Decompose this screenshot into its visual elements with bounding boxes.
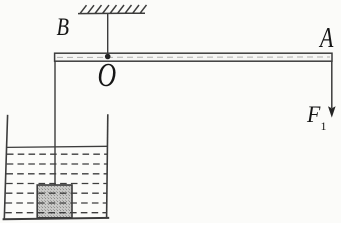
svg-text:A: A: [318, 24, 334, 54]
svg-text:F: F: [306, 101, 321, 127]
svg-text:B: B: [57, 13, 70, 40]
svg-text:O: O: [98, 56, 117, 94]
svg-text:1: 1: [321, 119, 327, 133]
